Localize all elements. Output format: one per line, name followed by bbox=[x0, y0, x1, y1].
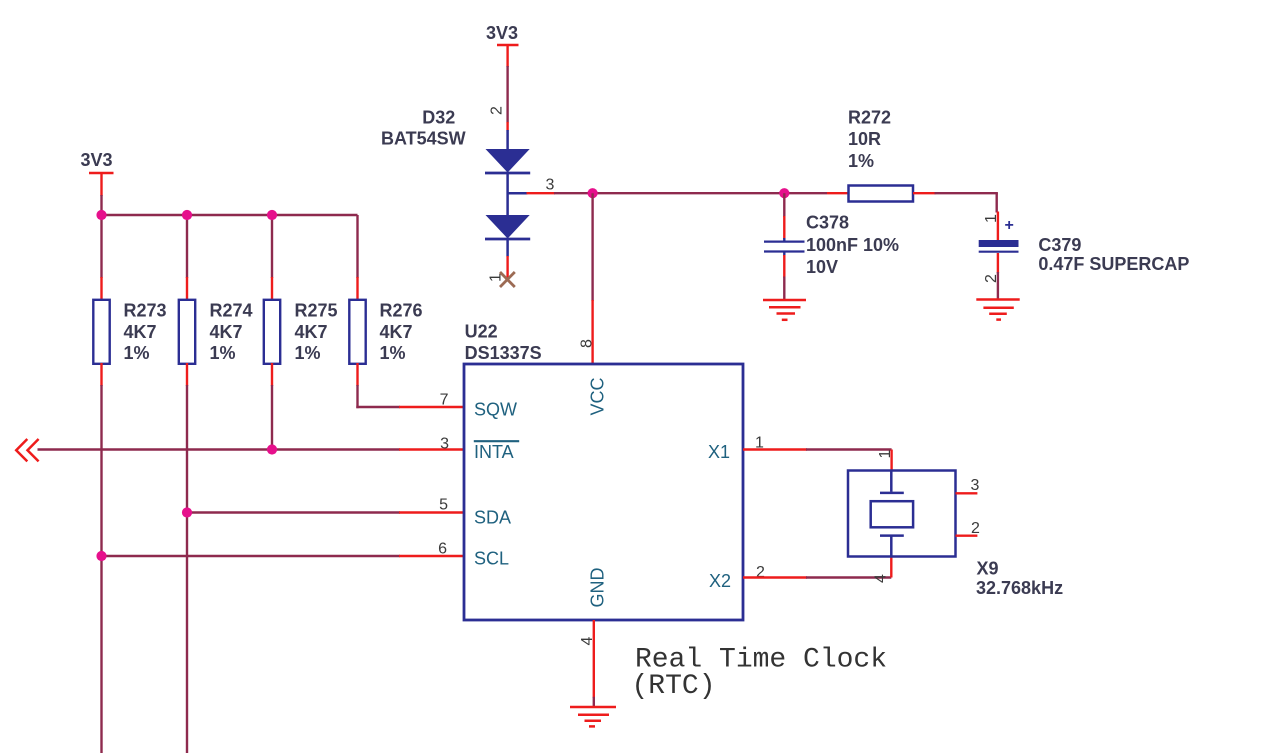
svg-text:R276: R276 bbox=[380, 301, 423, 321]
svg-text:U22: U22 bbox=[465, 322, 498, 342]
wire SCL net bbox=[102, 555, 465, 557]
wire bus drop to R276 bbox=[356, 215, 358, 301]
wire bus drop to R274 bbox=[186, 215, 188, 301]
svg-text:R274: R274 bbox=[210, 301, 253, 321]
svg-text:VCC: VCC bbox=[588, 377, 608, 415]
svg-text:1%: 1% bbox=[295, 343, 321, 363]
resistor R273 bbox=[93, 300, 166, 364]
svg-text:X9: X9 bbox=[977, 559, 999, 579]
wire R276 bottom to SQW bbox=[356, 363, 464, 408]
svg-text:4K7: 4K7 bbox=[124, 322, 157, 342]
svg-text:INTA: INTA bbox=[474, 442, 514, 462]
svg-text:R272: R272 bbox=[848, 108, 891, 128]
svg-text:3V3: 3V3 bbox=[486, 23, 518, 43]
wire R274 bottom bbox=[186, 363, 188, 753]
svg-text:1%: 1% bbox=[210, 343, 236, 363]
svg-text:4K7: 4K7 bbox=[210, 322, 243, 342]
svg-text:32.768kHz: 32.768kHz bbox=[976, 578, 1063, 598]
IC U22 DS1337S bbox=[464, 322, 743, 621]
wire 3V3 left vertical to bus bbox=[100, 195, 102, 216]
svg-text:(RTC): (RTC) bbox=[632, 671, 716, 702]
svg-text:BAT54SW: BAT54SW bbox=[381, 129, 466, 149]
wire VCC rail horizontal bbox=[593, 192, 849, 194]
svg-text:D32: D32 bbox=[422, 108, 455, 128]
wire X1 to crystal pin 1 bbox=[743, 450, 892, 472]
svg-text:8: 8 bbox=[579, 339, 596, 348]
power symbol 3V3 (top, D32) bbox=[486, 23, 519, 67]
svg-text:2: 2 bbox=[971, 520, 980, 537]
junction dot bus at R273 bbox=[96, 210, 106, 220]
svg-text:R275: R275 bbox=[295, 301, 338, 321]
svg-text:+: + bbox=[1005, 217, 1014, 234]
svg-text:4K7: 4K7 bbox=[295, 322, 328, 342]
svg-text:6: 6 bbox=[438, 541, 447, 558]
svg-text:C379: C379 bbox=[1038, 235, 1081, 255]
resistor R276 bbox=[349, 300, 422, 364]
wire R273 bottom bbox=[100, 363, 102, 753]
svg-text:1%: 1% bbox=[848, 151, 874, 171]
wire D32 pin 3 to rail bbox=[527, 192, 593, 194]
svg-text:R273: R273 bbox=[124, 301, 167, 321]
wire INTA net bbox=[38, 448, 465, 450]
svg-text:5: 5 bbox=[439, 497, 448, 514]
svg-text:3V3: 3V3 bbox=[81, 150, 113, 170]
svg-text:X2: X2 bbox=[709, 571, 731, 591]
input port chevron bbox=[16, 439, 38, 461]
svg-text:C378: C378 bbox=[806, 213, 849, 233]
diode D32 BAT54SW bbox=[381, 108, 530, 257]
svg-text:3: 3 bbox=[971, 477, 980, 494]
svg-text:0.47F SUPERCAP: 0.47F SUPERCAP bbox=[1038, 254, 1189, 274]
svg-text:3: 3 bbox=[546, 177, 555, 194]
ground (U22 GND) bbox=[570, 707, 616, 726]
svg-text:7: 7 bbox=[440, 392, 449, 409]
svg-text:4K7: 4K7 bbox=[380, 322, 413, 342]
wire R275 bottom bbox=[271, 363, 273, 450]
svg-text:1%: 1% bbox=[380, 343, 406, 363]
wire SDA net bbox=[187, 511, 464, 513]
note Real Time Clock bbox=[632, 645, 888, 703]
resistor R274 bbox=[179, 300, 253, 364]
wire U22 GND to ground bbox=[593, 620, 595, 707]
junction dot rail / C378 bbox=[779, 188, 789, 198]
svg-text:4: 4 bbox=[873, 574, 890, 583]
svg-text:1%: 1% bbox=[124, 343, 150, 363]
crystal X9 bbox=[848, 471, 1063, 599]
junction dot SDA / R274 bbox=[182, 507, 192, 517]
junction dot SCL / R273 bbox=[96, 551, 106, 561]
svg-text:X1: X1 bbox=[708, 442, 730, 462]
svg-text:1: 1 bbox=[983, 214, 1000, 223]
wire 3V3 to D32 pin 2 bbox=[506, 66, 508, 131]
wire 3V3 bus horizontal bbox=[102, 214, 358, 216]
wire bus drop to R273 bbox=[100, 215, 102, 301]
svg-text:100nF 10%: 100nF 10% bbox=[806, 235, 899, 255]
wire X2 to crystal pin 4 bbox=[743, 557, 891, 578]
wire crystal pin 3 stub bbox=[956, 492, 978, 494]
svg-text:SQW: SQW bbox=[474, 400, 517, 420]
no-connect X bbox=[500, 272, 515, 287]
junction dot rail / VCC bbox=[588, 188, 598, 198]
svg-text:GND: GND bbox=[588, 568, 608, 608]
capacitor C378 bbox=[764, 193, 899, 299]
svg-text:DS1337S: DS1337S bbox=[465, 343, 542, 363]
svg-text:10R: 10R bbox=[848, 129, 881, 149]
resistor R272 bbox=[848, 108, 913, 202]
power symbol 3V3 (left) bbox=[81, 150, 114, 196]
svg-text:10V: 10V bbox=[806, 257, 838, 277]
ground (C378) bbox=[763, 300, 806, 320]
svg-text:1: 1 bbox=[877, 450, 894, 459]
svg-text:2: 2 bbox=[983, 274, 1000, 283]
junction dot bus at R274 bbox=[182, 210, 192, 220]
pin name INTA (with overline) bbox=[474, 441, 519, 462]
capacitor C379 supercap bbox=[979, 212, 1190, 300]
wire U22 VCC vertical bbox=[591, 193, 593, 364]
resistor R275 bbox=[264, 300, 338, 364]
wire D32 pin 1 to no-connect bbox=[506, 256, 508, 278]
svg-text:2: 2 bbox=[489, 106, 506, 115]
wire bus drop to R275 bbox=[271, 215, 273, 301]
ground (C379) bbox=[976, 300, 1019, 320]
svg-text:3: 3 bbox=[440, 436, 449, 453]
wire crystal pin 2 stub bbox=[956, 535, 978, 537]
svg-text:SDA: SDA bbox=[474, 508, 511, 528]
svg-text:SCL: SCL bbox=[474, 549, 509, 569]
junction dot INTA / R275 bbox=[267, 444, 277, 454]
wire R272 right to C379 corner bbox=[913, 193, 998, 212]
junction dot bus at R275 bbox=[267, 210, 277, 220]
